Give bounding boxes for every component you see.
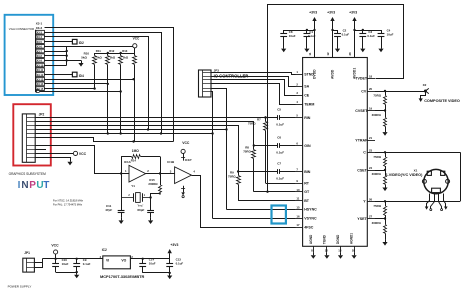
svg-text:P: P	[29, 180, 36, 191]
IC2 regulator MCP1700T-3302E/MBTR	[100, 248, 145, 279]
wire R8 to GT	[254, 191, 295, 193]
IC U1 top pins DVDD AVDD AVDD1	[308, 30, 357, 79]
svg-text:X3-5: X3-5	[37, 41, 43, 44]
svg-text:IO CONTROLLER: IO CONTROLLER	[214, 73, 249, 78]
svg-text:13: 13	[338, 248, 342, 252]
svg-text:RT: RT	[304, 181, 310, 185]
wire rail1 caps branch	[284, 29, 316, 31]
ground (C4)	[378, 46, 383, 52]
svg-text:N: N	[21, 180, 28, 191]
resistor R7 75R&#937;	[248, 116, 268, 183]
svg-text:10uF: 10uF	[62, 262, 69, 266]
svg-text:AVDD: AVDD	[331, 69, 335, 79]
wire X3-3 to bundle	[45, 33, 162, 134]
power +3V3 (AVDD)	[327, 11, 335, 58]
crystal Y1	[121, 193, 151, 203]
svg-text:X3-2: X3-2	[36, 26, 43, 30]
JP3 pin stubs	[203, 73, 211, 92]
svg-text:23: 23	[369, 149, 373, 153]
svg-text:X3-7: X3-7	[37, 50, 43, 53]
svg-text:200RΩ: 200RΩ	[148, 182, 158, 186]
wire VSYNC row (JP2-5)	[35, 132, 295, 218]
wire JP2 VCC row	[35, 153, 73, 155]
power symbol VCC (IC1P)	[181, 141, 191, 162]
svg-text:X1: X1	[414, 169, 418, 173]
wire CVSET junction	[375, 109, 386, 111]
text INPUT	[18, 180, 50, 191]
capacitor C5 0.1uF	[276, 107, 284, 126]
svg-text:4FSC: 4FSC	[304, 225, 314, 229]
svg-text:GIN: GIN	[304, 144, 311, 148]
wire CV to X2	[375, 90, 426, 92]
svg-text:VO: VO	[121, 258, 126, 262]
svg-text:X3-14: X3-14	[37, 83, 44, 86]
wire X3-7	[44, 51, 66, 53]
wire X3-14	[44, 83, 109, 85]
svg-text:DGND: DGND	[336, 234, 340, 244]
capacitor C13 0.1uF	[166, 257, 183, 273]
svg-text:X3-11: X3-11	[37, 69, 44, 72]
svg-text:VCC: VCC	[51, 243, 59, 247]
svg-text:10uF: 10uF	[289, 34, 296, 38]
IC U1 bottom ground pins	[309, 233, 357, 259]
svg-text:CE: CE	[304, 93, 310, 97]
pad ID2	[72, 39, 84, 45]
wire X3 shield	[39, 90, 122, 92]
resistor 75R&#937; (C-CSET)	[373, 152, 386, 170]
svg-text:75RΩ: 75RΩ	[373, 204, 381, 208]
wire X3-2 to bundle	[45, 28, 174, 142]
wire X3-13	[44, 78, 135, 80]
svg-text:0.1uF: 0.1uF	[176, 261, 184, 265]
svg-text:X3-10: X3-10	[37, 64, 44, 67]
svg-text:47pF: 47pF	[105, 208, 112, 212]
resistor 300R&#937; (CVSET)	[372, 111, 387, 130]
capacitor C6 0.1uF	[276, 135, 284, 154]
inverter IC1A	[124, 160, 149, 188]
svg-text:TGND: TGND	[323, 234, 327, 244]
wire C5 to RIN pin	[280, 117, 295, 119]
ground (C3)	[360, 46, 365, 52]
svg-text:17: 17	[296, 223, 300, 227]
capacitor C8 10uF	[280, 30, 295, 46]
svg-text:11: 11	[296, 197, 299, 201]
wire X3-5 to ID2	[44, 41, 72, 43]
svg-text:CVSET: CVSET	[355, 109, 368, 113]
capacitor C14 10uF	[139, 257, 155, 273]
capacitor C9 0.1uF	[73, 258, 90, 272]
ground (C12)	[148, 218, 153, 224]
wire JP1 to rail	[35, 259, 43, 268]
ground (YSET divider)	[382, 239, 387, 245]
highlight box around VGA connector	[5, 15, 54, 95]
svg-text:75RΩ: 75RΩ	[248, 122, 256, 126]
IC U1 left pins	[295, 70, 317, 229]
wire IC1B out to 4FSC	[192, 176, 296, 228]
svg-text:S-VIDEO(Y/C VIDEO): S-VIDEO(Y/C VIDEO)	[385, 173, 423, 177]
svg-text:MCP1700T-3302E/MBTR: MCP1700T-3302E/MBTR	[100, 274, 145, 279]
svg-text:12: 12	[325, 248, 329, 252]
connector JP1	[23, 251, 35, 272]
resistor R14 1M&#937; feedback	[120, 149, 161, 175]
capacitor C1 0.1uF	[304, 30, 316, 46]
connector X2 COMPOSITE VIDEO	[419, 83, 460, 103]
wire rail3 caps branch	[353, 29, 381, 31]
svg-text:R12: R12	[109, 49, 115, 53]
svg-text:RIN: RIN	[304, 116, 311, 120]
wire HSYNC row (JP2-4)	[35, 128, 295, 209]
ground (C8)	[281, 46, 286, 52]
svg-text:75RΩ: 75RΩ	[373, 155, 381, 159]
svg-text:R11: R11	[96, 49, 101, 53]
svg-text:IC1B: IC1B	[167, 160, 175, 164]
wire TVDET loop	[268, 5, 404, 192]
capacitor C4 10uF	[378, 29, 394, 46]
svg-text:VSYNC: VSYNC	[304, 217, 317, 221]
wire X3-6 to VCC	[44, 46, 132, 48]
svg-text:X3-9: X3-9	[37, 60, 43, 63]
svg-text:75RΩ: 75RΩ	[243, 150, 251, 154]
svg-text:75RΩ: 75RΩ	[373, 94, 381, 98]
svg-text:VCC: VCC	[182, 141, 190, 145]
ground (JP2)	[67, 159, 72, 165]
resistor R15 200R&#937;	[148, 174, 161, 195]
wire rail2 cap branch	[331, 29, 337, 31]
wire B row (JP2-3)	[36, 126, 239, 172]
text POWER SUPPLY	[8, 285, 32, 289]
capacitor C10 10uF	[52, 258, 68, 272]
power +3V3 (AVDD1)	[349, 11, 357, 58]
highlight box around JP2	[13, 104, 51, 165]
resistor 75R&#937; (CV-CVSET)	[373, 91, 386, 111]
wire JP3-6 to VSYNC	[211, 92, 213, 219]
wire JP2 ground row	[36, 158, 71, 160]
svg-text:R7: R7	[257, 117, 261, 121]
svg-text:10uF: 10uF	[387, 33, 394, 37]
power +3V3 (DVDD)	[309, 11, 317, 58]
svg-text:0.1uF: 0.1uF	[276, 151, 284, 155]
svg-text:HSYNC: HSYNC	[304, 208, 317, 212]
svg-text:AGND1: AGND1	[350, 233, 354, 244]
svg-text:5kΩ: 5kΩ	[96, 56, 102, 60]
wire R15 to crystal	[151, 194, 161, 198]
inverter IC1B	[167, 160, 195, 184]
wire X3-10	[44, 65, 66, 67]
svg-text:X3-4: X3-4	[37, 36, 43, 39]
resistor R10 5k&#937; to ground	[78, 51, 89, 66]
svg-text:T: T	[43, 180, 49, 191]
svg-text:R14: R14	[131, 158, 137, 162]
svg-text:0.1uF: 0.1uF	[342, 33, 350, 37]
svg-text:12: 12	[326, 52, 330, 56]
svg-text:C7: C7	[277, 161, 281, 165]
svg-text:AVDD1: AVDD1	[353, 68, 357, 79]
svg-text:C: C	[363, 151, 366, 155]
connector X1 S-VIDEO mini-DIN	[414, 169, 450, 194]
svg-text:15: 15	[296, 206, 300, 210]
wire JP3-5 to HSYNC	[212, 89, 228, 210]
wire JP2 row8	[35, 149, 46, 151]
svg-text:28: 28	[348, 52, 352, 56]
svg-text:TVDET: TVDET	[355, 77, 368, 81]
svg-text:AGND: AGND	[309, 234, 313, 244]
svg-text:BIN: BIN	[304, 170, 311, 174]
wire X3-12 to ID4	[44, 74, 72, 76]
IC U1 right pins	[355, 75, 375, 221]
svg-text:18: 18	[369, 75, 373, 79]
connector JP3 (IO CONTROLLER)	[199, 69, 249, 97]
wire X3-4 to bundle	[45, 37, 149, 130]
wire power rail	[43, 258, 103, 260]
ground (C1)	[304, 46, 309, 52]
resistor R9 75R&#937;	[228, 170, 241, 200]
svg-text:+3V3: +3V3	[170, 243, 178, 247]
svg-text:X2: X2	[423, 83, 427, 87]
wire X1 enclosure right	[460, 152, 462, 201]
svg-text:GRAPHICS SUBSYSTEM: GRAPHICS SUBSYSTEM	[9, 172, 47, 176]
svg-text:300RΩ: 300RΩ	[372, 113, 382, 117]
svg-text:11: 11	[308, 52, 312, 55]
svg-text:For NTSC: 14.31818 MHz: For NTSC: 14.31818 MHz	[53, 198, 84, 202]
svg-text:28: 28	[352, 248, 356, 252]
wire IC1A out to IC1B	[146, 173, 175, 175]
svg-text:X3-1: X3-1	[36, 22, 43, 26]
wire output caps tie	[143, 272, 171, 274]
svg-text:5kΩ: 5kΩ	[81, 55, 87, 59]
ground (C2)	[335, 46, 340, 52]
svg-text:26: 26	[369, 198, 373, 202]
svg-text:IC1P: IC1P	[185, 158, 192, 162]
wire X3-9 to R10 ground	[44, 60, 81, 62]
svg-text:300RΩ: 300RΩ	[372, 221, 382, 225]
svg-text:0.1uF: 0.1uF	[367, 34, 375, 38]
svg-text:VCC: VCC	[133, 37, 140, 41]
resistor 300R&#937; (CSET)	[372, 170, 387, 185]
wire G row (JP2-2)	[36, 122, 254, 146]
svg-text:IC1A: IC1A	[124, 160, 132, 164]
svg-text:20: 20	[369, 87, 373, 91]
capacitor C11 47pF	[105, 204, 124, 218]
wire R row (JP2-1 to C5/RIN)	[35, 116, 277, 118]
VCC rail for pull-ups	[95, 52, 135, 54]
svg-text:+3V3: +3V3	[327, 11, 335, 15]
svg-text:300RΩ: 300RΩ	[372, 172, 382, 176]
resistor 75R&#937; (Y-YSET)	[373, 201, 386, 218]
ground (CVSET divider)	[382, 130, 387, 136]
capacitor C7 0.1uF	[276, 161, 284, 180]
power +3V3 (supply out)	[168, 243, 179, 259]
ground (output caps)	[167, 273, 172, 279]
svg-text:TERM: TERM	[304, 102, 314, 106]
svg-text:+3V3: +3V3	[349, 11, 357, 15]
svg-text:X3-3: X3-3	[37, 31, 43, 34]
pad ID4	[72, 72, 84, 78]
wire R7 to RT	[266, 183, 296, 185]
power symbol VCC (pull-up rail)	[133, 37, 140, 53]
capacitor C12 60pF	[137, 204, 154, 218]
svg-text:X3-6: X3-6	[37, 46, 43, 49]
svg-text:CV: CV	[361, 89, 367, 93]
svg-text:IC2: IC2	[102, 248, 107, 252]
svg-text:10: 10	[296, 188, 300, 192]
svg-text:ID2: ID2	[79, 41, 84, 45]
X1 legs to ground	[425, 194, 448, 211]
svg-text:1MΩ: 1MΩ	[132, 149, 139, 153]
svg-text:X3-12: X3-12	[37, 74, 44, 77]
svg-text:5kΩ: 5kΩ	[123, 56, 129, 60]
svg-text:JP2: JP2	[39, 112, 45, 116]
svg-text:GT: GT	[304, 190, 310, 194]
svg-text:BT: BT	[304, 199, 310, 203]
connector JP2 (graphics subsystem input)	[22, 112, 44, 162]
resistor 300R&#937; (YSET)	[372, 219, 387, 240]
resistor R12 5k&#937;	[106, 49, 116, 133]
svg-text:For PAL: 17.734475 MHz: For PAL: 17.734475 MHz	[53, 203, 83, 207]
power symbol VCC (supply)	[51, 243, 59, 258]
IC U1 body	[303, 58, 368, 247]
svg-text:JP1: JP1	[24, 251, 30, 255]
svg-text:0.1uF: 0.1uF	[83, 262, 91, 266]
ground (C11)	[119, 218, 124, 224]
wire C out row	[375, 151, 460, 153]
svg-text:+3V3: +3V3	[309, 11, 317, 15]
svg-text:10uF: 10uF	[149, 261, 156, 265]
wire JP3-4 to TERM	[212, 84, 296, 105]
svg-text:X3-8: X3-8	[37, 55, 43, 58]
wire JP2-7 to oscillator	[36, 146, 130, 174]
svg-text:POWER SUPPLY: POWER SUPPLY	[8, 285, 32, 289]
ground (input caps)	[74, 272, 79, 278]
svg-text:27: 27	[369, 215, 373, 219]
ground bus junction at X3 pins 6-10	[66, 46, 68, 65]
ground (CSET divider)	[382, 185, 387, 191]
wire GIN row	[253, 144, 278, 146]
svg-text:0.1uF: 0.1uF	[276, 177, 284, 181]
wire caps to ground	[56, 271, 78, 273]
wire VO to +3V3	[130, 258, 169, 260]
svg-text:VCC: VCC	[79, 152, 87, 156]
svg-text:5kΩ: 5kΩ	[110, 56, 116, 60]
wire JP3-2 to SA	[212, 77, 296, 87]
svg-text:CSET: CSET	[357, 168, 367, 172]
resistor R11 5k&#937;	[93, 49, 103, 88]
svg-text:Y1: Y1	[131, 184, 135, 188]
text GRAPHICS SUBSYSTEM	[9, 172, 47, 176]
svg-text:YSET: YSET	[357, 217, 367, 221]
highlight box HSYNC/VSYNC	[272, 206, 286, 224]
wire R9 to BT	[238, 200, 295, 202]
svg-text:VI: VI	[106, 258, 109, 262]
wire CSET junction	[375, 169, 386, 171]
svg-text:24: 24	[369, 166, 373, 170]
resistor R13 5k&#937;	[119, 49, 129, 133]
svg-text:16: 16	[296, 214, 300, 218]
resistor pull-up at VCC	[133, 53, 137, 142]
svg-text:ID4: ID4	[79, 74, 84, 78]
capacitor C2 0.1uF	[334, 29, 349, 46]
wire C6 to GIN pin	[0, 0, 1, 1]
text S-VIDEO label	[385, 173, 423, 177]
svg-text:0.1uF: 0.1uF	[276, 123, 284, 127]
capacitor C3 0.1uF	[359, 30, 375, 46]
wire YSET junction	[375, 217, 386, 219]
wire crystal left leg	[121, 174, 123, 211]
wire C7 to BIN pin2	[280, 171, 295, 173]
svg-text:YTRAP: YTRAP	[355, 138, 368, 142]
svg-text:19: 19	[369, 107, 373, 111]
svg-text:R13: R13	[122, 49, 128, 53]
wire JP3-3 to CE	[212, 80, 296, 96]
svg-text:C6: C6	[277, 135, 281, 139]
wire BIN row	[237, 170, 277, 172]
svg-text:“freq”: “freq”	[137, 204, 143, 208]
JP2 pin stubs	[27, 118, 36, 158]
wire row 6 (JP2-6)	[36, 138, 174, 143]
text crystal frequency note	[53, 198, 84, 206]
svg-text:VGA CONNECTOR: VGA CONNECTOR	[9, 27, 34, 31]
svg-text:COMPOSITE VIDEO: COMPOSITE VIDEO	[424, 99, 460, 103]
connector X3 (VGA CONNECTOR)	[36, 22, 45, 93]
svg-text:21: 21	[369, 136, 373, 140]
svg-text:C5: C5	[277, 107, 281, 111]
svg-text:SA: SA	[304, 85, 309, 89]
wire JP3-1 to STND	[212, 73, 296, 75]
svg-text:75RΩ: 75RΩ	[228, 175, 236, 179]
svg-text:60pF: 60pF	[137, 208, 144, 212]
svg-text:I: I	[18, 180, 21, 191]
svg-text:DVDD: DVDD	[313, 69, 317, 79]
power symbol VCC (JP2)	[73, 151, 86, 156]
svg-text:0.1uF: 0.1uF	[308, 34, 316, 38]
wire Y out row	[375, 200, 460, 202]
resistor R8 75R&#937;	[243, 145, 255, 191]
wire crystal right leg	[149, 196, 151, 210]
wire X3-15	[44, 87, 96, 89]
IC1B ground pin	[181, 186, 185, 198]
svg-text:X3-13: X3-13	[37, 78, 44, 81]
wire C6 to GIN pin2	[280, 145, 295, 147]
wire X3-8	[44, 55, 66, 57]
